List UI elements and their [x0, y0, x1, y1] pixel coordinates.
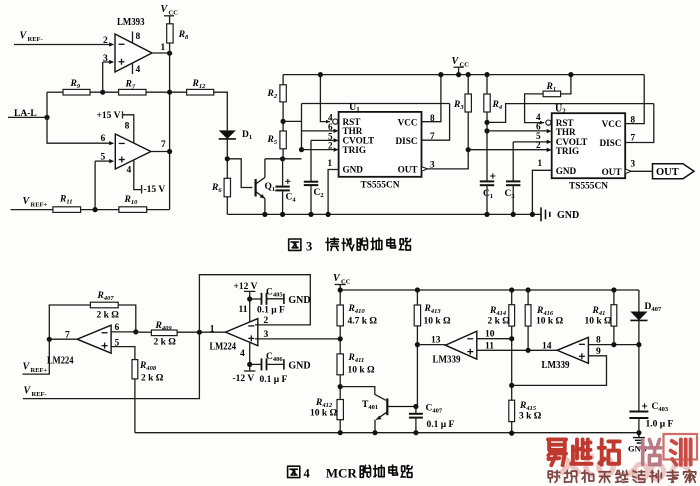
- svg-text:13: 13: [431, 336, 441, 346]
- node rail/Q1 emitter: [262, 212, 267, 217]
- svg-text:4: 4: [136, 65, 141, 75]
- svg-text:REF+: REF+: [31, 367, 48, 374]
- diode D407: [630, 312, 647, 321]
- wire C406 to gnd tick: [267, 363, 284, 365]
- svg-text:LM224: LM224: [210, 342, 237, 353]
- node rail4/R414: [509, 287, 514, 292]
- wire U1 VCC pin8 riser: [422, 75, 441, 122]
- wire rail corner to D407: [638, 290, 640, 312]
- node rail4/R417: [611, 287, 616, 292]
- svg-text:GND: GND: [288, 360, 310, 371]
- svg-text:11: 11: [239, 305, 248, 315]
- watermark char 6 line2: [633, 471, 645, 483]
- watermark char 3 line2: [582, 471, 594, 483]
- wire R411-R412: [339, 375, 341, 400]
- wire pin11 row to LM339b output: [477, 349, 557, 351]
- wire C403 to rail: [638, 418, 640, 433]
- resistor R414: [509, 305, 515, 326]
- svg-text:DISC: DISC: [600, 138, 622, 148]
- wire U1A pin4 stub: [132, 63, 134, 74]
- wire CVOLT row: [311, 139, 334, 141]
- capacitor C403: [629, 412, 648, 419]
- wire LM224 output west: [49, 338, 77, 340]
- resistor R415: [509, 400, 515, 421]
- U2 pin numbers: [536, 112, 636, 168]
- svg-text:0.1 μ F: 0.1 μ F: [260, 375, 288, 385]
- arrow into pin2: [109, 42, 114, 46]
- svg-text:4: 4: [240, 349, 245, 359]
- comparator U402B LM339 (right): [557, 337, 588, 363]
- resistor R9: [63, 89, 90, 95]
- wire R6 to ground rail: [226, 197, 228, 215]
- svg-text:3: 3: [631, 159, 636, 169]
- wire D407 to pin8 row: [638, 320, 640, 344]
- wire R5 to C4 node: [282, 149, 284, 159]
- node rail4 left end: [338, 287, 343, 292]
- wire pin5 to R408: [111, 347, 135, 360]
- wire R409 to LM224b input: [177, 331, 225, 333]
- resistor R8: [167, 24, 173, 43]
- arrow into pin5: [109, 159, 114, 163]
- resistor R1: [543, 91, 561, 97]
- wire Vref- to pin1 node: [23, 332, 200, 398]
- wire R413 down to C407 node: [416, 326, 418, 407]
- wire pin4 to -12V: [249, 343, 251, 371]
- power -12V tick: [244, 370, 255, 372]
- svg-text:8: 8: [125, 122, 130, 132]
- U2 pin name texts: [556, 118, 622, 177]
- wire pin5 stub: [95, 160, 109, 162]
- wire R410-R411: [339, 326, 341, 354]
- capacitor C405: [262, 293, 267, 305]
- comparator U402A LM339 (left): [445, 331, 476, 359]
- svg-text:GND: GND: [343, 165, 364, 175]
- node rail/R3: [466, 72, 471, 77]
- node R416/pin11/out14: [526, 348, 531, 353]
- svg-text:OUT: OUT: [398, 165, 418, 175]
- watermark char 9 line2: [684, 470, 696, 482]
- power VCC tick (fig4): [335, 284, 346, 286]
- svg-text:1: 1: [210, 324, 215, 334]
- svg-text:2: 2: [103, 36, 108, 46]
- wire R407 right to pin6 node: [118, 305, 136, 332]
- wire fig4 bottom rail: [135, 432, 639, 434]
- wire pin6 row: [111, 331, 136, 333]
- wire Q1 collector riser: [264, 159, 266, 178]
- wire to R9 left: [47, 91, 63, 93]
- resistor R3: [465, 94, 471, 112]
- node U1A output junction: [167, 51, 172, 56]
- OUT output flag: [653, 164, 695, 179]
- svg-text:3: 3: [306, 239, 312, 253]
- wire output 13 row: [417, 344, 445, 346]
- resistor R416: [525, 305, 531, 326]
- watermark char 8 line2: [667, 471, 678, 483]
- watermark char 4 line1: [640, 439, 661, 464]
- wire pin3 to divider: [255, 338, 340, 340]
- svg-text:OUT: OUT: [656, 167, 679, 178]
- arrow into pin3: [109, 60, 114, 64]
- svg-text:6: 6: [115, 323, 120, 333]
- wire bus to R12: [170, 91, 187, 93]
- arrow CVOLT U2: [547, 140, 552, 144]
- power VCC tick bar: [164, 15, 174, 17]
- U1 pin name texts: [343, 117, 418, 175]
- wire C405 to gnd tick: [267, 298, 284, 300]
- svg-text:MCR: MCR: [326, 465, 358, 480]
- wire VREF- to U1A pin2: [14, 44, 110, 46]
- wire Q1 emitter to ground rail: [264, 199, 266, 215]
- svg-text:2 k Ω: 2 k Ω: [97, 311, 120, 321]
- node TRIG junction: [299, 147, 304, 152]
- capacitor C406: [262, 358, 267, 370]
- capacitor C1: [480, 181, 494, 185]
- node rail/U1 gnd: [326, 212, 331, 217]
- watermark char 1 line1: [548, 439, 566, 465]
- wire THR/TRIG vertical: [301, 104, 303, 150]
- svg-text:3: 3: [430, 159, 435, 169]
- wire TRIG row to U2: [468, 149, 547, 151]
- wire R11 to R10: [81, 209, 119, 211]
- wire VCC to rail corner: [339, 285, 341, 306]
- resistor R410: [337, 305, 343, 326]
- capacitor C2: [304, 182, 318, 185]
- wire rail to R413: [416, 290, 418, 305]
- node LA-L junction: [44, 115, 49, 120]
- wire rail to R4: [486, 75, 488, 94]
- wire U1B output to bus: [151, 151, 170, 153]
- wire fig4 top rail: [340, 289, 639, 291]
- svg-text:TRIG: TRIG: [343, 145, 367, 155]
- wire R412 to bottom rail: [339, 420, 341, 433]
- op-amp U401B LM224 (right): [226, 319, 258, 346]
- ground symbol (fig3): [541, 207, 550, 221]
- wire pin3 riser to R9/R7 node: [102, 62, 104, 92]
- wire pin10 row: [477, 338, 512, 340]
- caption figure 3: [289, 238, 411, 254]
- wire node to C407: [415, 407, 417, 414]
- node rail/C1: [484, 212, 489, 217]
- svg-text:LM393: LM393: [117, 17, 145, 28]
- svg-text:2 k Ω: 2 k Ω: [154, 338, 177, 348]
- svg-text:10: 10: [485, 330, 495, 340]
- wire R7 to bus: [146, 91, 170, 93]
- node collector/C407/R413: [413, 404, 418, 409]
- transistor T401: [376, 398, 416, 419]
- node rail/RST riser: [318, 72, 323, 77]
- svg-text:LM339: LM339: [433, 355, 461, 366]
- wire D1 to R6: [226, 139, 228, 178]
- wire CVOLT riser to C2: [310, 140, 312, 181]
- node pin6/R407/R409 junction: [133, 329, 138, 334]
- node U1B output junction: [167, 149, 172, 154]
- resistor R10: [119, 207, 147, 213]
- resistor R417: [611, 305, 617, 326]
- wire pin3 stub: [103, 61, 110, 63]
- watermark char 7 line2: [650, 471, 662, 483]
- svg-text:4.7 k Ω: 4.7 k Ω: [348, 317, 378, 327]
- wire rail to R2: [282, 75, 284, 85]
- wire U1A output to node: [152, 52, 170, 54]
- node rail/R415: [509, 431, 514, 436]
- wire R417 to pin8 row: [613, 326, 615, 345]
- ground tick (C405): [283, 294, 285, 304]
- svg-text:LM339: LM339: [542, 360, 570, 371]
- svg-text:0.1 μ F: 0.1 μ F: [257, 306, 285, 316]
- node rail/R412: [338, 430, 343, 435]
- transistor Q1: [256, 178, 265, 199]
- wire LA-L lead: [8, 116, 47, 118]
- node rail/C3: [511, 212, 516, 217]
- svg-text:+15 V: +15 V: [97, 111, 121, 121]
- wire VCC tick to rail: [458, 67, 460, 74]
- wire CVOLT riser to C3: [512, 142, 514, 181]
- wire U2 VCC pin8 riser: [625, 75, 644, 124]
- wire U2 GND pin1 to rail: [532, 170, 551, 214]
- capacitor C407: [409, 414, 423, 418]
- svg-text:9: 9: [596, 347, 601, 357]
- wire C1 to ground rail: [486, 185, 488, 214]
- wire U1B pin4 to -15V: [134, 160, 142, 190]
- watermark box around last char: [664, 434, 698, 460]
- IC U2 TS555CN box: [552, 113, 626, 178]
- node R3/OUT/TRIG junction: [466, 147, 471, 152]
- wire T401 emitter to rail: [374, 420, 376, 433]
- wire R4 to C1: [486, 112, 488, 181]
- RST inverter bubble U2: [540, 121, 544, 125]
- plus sign C1: [490, 173, 495, 178]
- resistor R7: [119, 89, 146, 95]
- watermark char 5 line1: [671, 439, 691, 464]
- wire THR row to U1 pin6: [302, 130, 335, 132]
- wire C407 to rail: [415, 418, 417, 433]
- wire to C406: [250, 363, 262, 365]
- resistor R6: [224, 178, 230, 197]
- node rail/U2 gnd: [530, 212, 535, 217]
- resistor R412: [337, 400, 343, 420]
- wire main vertical bus (outputs/R7/R10): [169, 53, 171, 209]
- node R5/C4/collector junction: [280, 156, 285, 161]
- node rail4/R416: [526, 287, 531, 292]
- resistor R11: [53, 207, 81, 213]
- node R413/output13: [415, 342, 420, 347]
- svg-text:2 k Ω: 2 k Ω: [488, 317, 511, 327]
- svg-text:REF-: REF-: [28, 36, 43, 43]
- wire rail to R417: [613, 290, 615, 305]
- U1 pin numbers: [328, 113, 436, 170]
- wire +15V to U1B pin8: [123, 115, 134, 143]
- svg-text:TRIG: TRIG: [556, 146, 580, 156]
- arrow into pin6: [109, 141, 114, 145]
- node rail/R1: [568, 72, 573, 77]
- wire U1 GND pin1 to rail: [328, 170, 339, 215]
- svg-text:-12 V: -12 V: [233, 374, 255, 384]
- svg-text:7: 7: [161, 140, 166, 150]
- svg-text:THR: THR: [556, 127, 576, 137]
- wire VCC to R8: [169, 16, 171, 24]
- wire TRIG row to U1 pin2: [302, 149, 335, 151]
- wire R2 to R5: [282, 102, 284, 131]
- node rail/R4: [484, 72, 489, 77]
- ground symbol (fig4): [628, 433, 647, 454]
- watermark char 3 line1: [599, 439, 620, 464]
- node rail/C403-GND: [636, 430, 641, 435]
- node R4/THR junction: [484, 128, 489, 133]
- wire pin9 loop to divider: [512, 356, 607, 386]
- svg-text:1: 1: [328, 158, 333, 168]
- svg-text:DISC: DISC: [396, 136, 418, 146]
- node R409/Vref-/pin1 junction: [197, 330, 202, 335]
- svg-text:GND: GND: [288, 295, 310, 306]
- node rail/Vcc tap: [456, 72, 461, 77]
- svg-text:11: 11: [485, 342, 494, 352]
- wire D1 node to Q1 base: [227, 159, 252, 188]
- wire VCC top rail: [283, 74, 644, 76]
- RST inverter bubble U1: [326, 120, 330, 124]
- svg-text:8: 8: [596, 336, 601, 346]
- wire U1 OUT to TRIG node U2: [428, 150, 469, 169]
- node R11/R10/pin5 junction: [93, 207, 98, 212]
- node R417/pin8: [611, 342, 616, 347]
- svg-text:8: 8: [136, 32, 141, 42]
- resistor R407: [90, 302, 118, 308]
- svg-text:VCC: VCC: [398, 118, 418, 128]
- caption figure 4: [288, 465, 413, 481]
- svg-text:1: 1: [538, 158, 543, 168]
- wire DISC loop to U2 pin7: [625, 104, 654, 143]
- node D1/R6/Q1-base junction: [225, 156, 230, 161]
- resistor R4: [484, 94, 490, 112]
- wire C3 to ground rail: [512, 185, 514, 214]
- watermark char 1 line2: [548, 471, 560, 483]
- wire U2 DISC loop top: [487, 104, 654, 123]
- wire R2 node east: [283, 120, 301, 122]
- svg-text:1.0 μ F: 1.0 μ F: [646, 420, 674, 430]
- svg-text:1: 1: [161, 43, 166, 53]
- resistor R411: [337, 354, 343, 375]
- wire R1 left to U2 RST: [525, 94, 544, 123]
- wire THR row to U2: [487, 130, 547, 132]
- resistor R413: [414, 305, 420, 326]
- wire R9 to R7: [90, 91, 119, 93]
- svg-text:REF+: REF+: [31, 202, 48, 209]
- power -15V tick: [141, 185, 143, 194]
- node R7/bus junction: [167, 90, 172, 95]
- node R411/R412/T401 base: [338, 384, 343, 389]
- svg-text:REF-: REF-: [32, 391, 47, 398]
- svg-text:2: 2: [536, 140, 541, 150]
- resistor R409: [151, 330, 177, 336]
- wire figure3 ground rail: [227, 213, 541, 215]
- node R414/pin10: [509, 336, 514, 341]
- svg-text:2: 2: [328, 141, 333, 151]
- svg-text:2 k Ω: 2 k Ω: [141, 374, 164, 384]
- op-amp U401A LM224 (left): [77, 325, 111, 353]
- arrow TRIG: [334, 148, 339, 152]
- svg-text:6: 6: [101, 134, 106, 144]
- svg-text:THR: THR: [343, 126, 363, 136]
- svg-text:3 k Ω: 3 k Ω: [519, 412, 542, 422]
- wire base lead T401: [340, 387, 386, 401]
- resistor R5: [280, 131, 286, 149]
- node D407/C403: [636, 342, 641, 347]
- svg-text:10 k Ω: 10 k Ω: [585, 317, 613, 327]
- node R410/R411/pin3: [338, 336, 343, 341]
- wire R407 left to output node: [49, 305, 90, 339]
- node supply/C406: [247, 362, 252, 367]
- wire R12 to D1: [214, 92, 228, 130]
- wire node to C403: [638, 345, 640, 411]
- watermark char 4 line2: [599, 472, 610, 483]
- svg-text:TS555CN: TS555CN: [569, 182, 608, 192]
- svg-text:10 k Ω: 10 k Ω: [424, 317, 452, 327]
- wire R416 to pin11 row: [527, 326, 529, 350]
- wire U1 DISC loop top: [302, 103, 450, 105]
- node rail/C407: [413, 430, 418, 435]
- power +12V tick: [244, 290, 255, 292]
- wire pin8 row: [588, 344, 639, 346]
- wire to C405: [250, 298, 262, 300]
- wire R1 right to rail: [561, 75, 571, 94]
- svg-text:LM224: LM224: [47, 356, 74, 367]
- wire +12V to pin11: [249, 291, 251, 321]
- svg-text:4: 4: [304, 467, 311, 481]
- node rail/pin8: [438, 72, 443, 77]
- svg-text:GND: GND: [556, 166, 577, 176]
- wire rail to R416: [527, 290, 529, 305]
- node supply/C405: [247, 296, 252, 301]
- wire U1A pin8 stub: [132, 32, 134, 43]
- wire R3 to OUT/TRIG node: [467, 112, 469, 150]
- svg-text:+12 V: +12 V: [234, 282, 258, 292]
- op-amp U1B LM393 (bottom comparator): [115, 134, 151, 169]
- wire rail to U1 pin4 RST: [320, 75, 330, 122]
- wire R10 to bus corner: [147, 209, 170, 211]
- resistor R12: [187, 89, 214, 95]
- capacitor C3: [506, 181, 520, 185]
- power VCC tick (rail): [454, 66, 464, 68]
- plus sign C4: [285, 179, 290, 184]
- wire pin5 riser to R11/R10 node: [94, 161, 96, 210]
- svg-text:TS555CN: TS555CN: [361, 181, 400, 191]
- node R415/pin9: [509, 383, 514, 388]
- wire rail to R3: [467, 75, 469, 94]
- arrow THR U2: [547, 129, 552, 133]
- OUT arrow U1 pin3: [422, 167, 428, 172]
- ground tick (C406): [283, 359, 285, 369]
- capacitor C4: [275, 187, 289, 191]
- wire R408 to bottom rail: [134, 379, 136, 433]
- wire node to C4: [282, 159, 284, 186]
- svg-text:VCC: VCC: [602, 119, 622, 129]
- power +15V tick: [122, 111, 124, 118]
- resistor R2: [280, 85, 286, 102]
- diode D1: [219, 130, 236, 139]
- arrow CVOLT: [334, 138, 339, 142]
- node rail/T401 emitter: [372, 430, 377, 435]
- svg-text:GND: GND: [557, 210, 579, 221]
- wire Vref+ lead: [22, 339, 49, 374]
- svg-text:10 k Ω: 10 k Ω: [310, 409, 338, 419]
- resistor R408: [132, 360, 138, 379]
- svg-text:0.1 μ F: 0.1 μ F: [427, 420, 455, 430]
- plus sign C403: [642, 403, 647, 408]
- svg-text:OUT: OUT: [602, 167, 622, 177]
- watermark char 5 line2: [616, 471, 628, 483]
- svg-text:14: 14: [542, 342, 552, 352]
- svg-text:7: 7: [430, 131, 435, 141]
- wire C2 to ground rail: [310, 185, 312, 214]
